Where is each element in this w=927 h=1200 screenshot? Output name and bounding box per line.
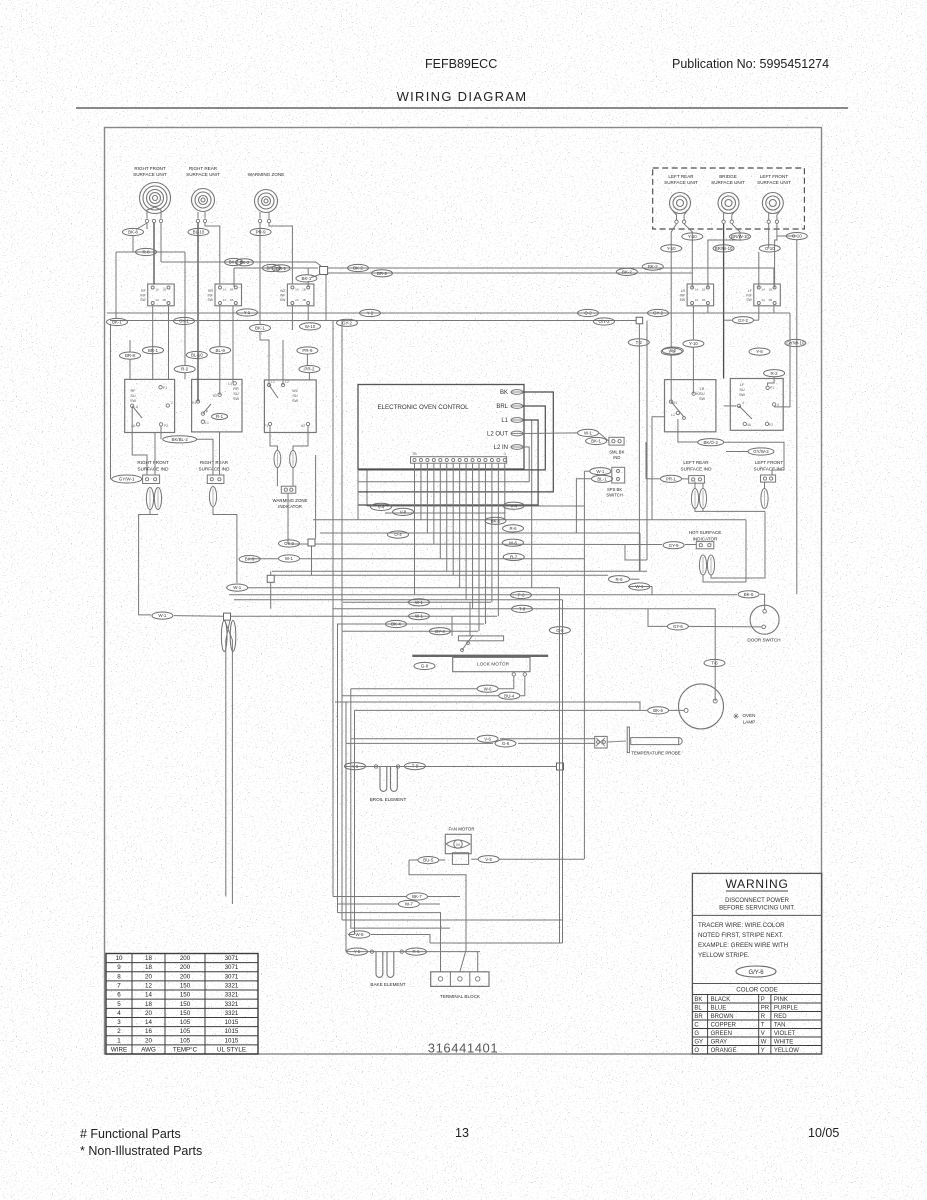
svg-text:SURFACE IND: SURFACE IND xyxy=(138,467,170,472)
svg-text:W-6: W-6 xyxy=(484,686,493,691)
svg-text:BK-7: BK-7 xyxy=(412,894,422,899)
svg-text:V: V xyxy=(761,1031,765,1037)
svg-text:BK-1: BK-1 xyxy=(302,276,312,281)
svg-text:4A: 4A xyxy=(131,424,136,428)
svg-text:8: 8 xyxy=(117,973,121,980)
svg-text:L3: L3 xyxy=(228,382,232,386)
svg-text:BR-2: BR-2 xyxy=(276,266,287,271)
svg-text:2: 2 xyxy=(117,1028,121,1035)
svg-text:SW: SW xyxy=(280,298,286,302)
svg-text:BK-9: BK-9 xyxy=(245,557,255,562)
svg-text:SW: SW xyxy=(130,399,137,403)
svg-text:FAN MOTOR: FAN MOTOR xyxy=(448,827,474,832)
svg-text:L1: L1 xyxy=(205,421,209,425)
svg-text:SURFACE UNIT: SURFACE UNIT xyxy=(664,180,698,185)
svg-text:Y-6: Y-6 xyxy=(756,349,763,354)
svg-text:316441401: 316441401 xyxy=(428,1041,498,1056)
svg-text:H2: H2 xyxy=(301,424,305,428)
svg-text:TAN: TAN xyxy=(774,1022,786,1028)
svg-text:1015: 1015 xyxy=(225,1028,239,1035)
svg-text:L1: L1 xyxy=(671,413,675,417)
svg-text:✳: ✳ xyxy=(733,712,740,721)
svg-text:105: 105 xyxy=(180,1037,191,1044)
svg-text:BR/W-10: BR/W-10 xyxy=(731,234,749,239)
svg-text:1B: 1B xyxy=(230,288,234,292)
svg-text:1015: 1015 xyxy=(225,1037,239,1044)
svg-text:1A: 1A xyxy=(155,288,159,292)
svg-text:W-6: W-6 xyxy=(509,540,518,545)
svg-text:SU: SU xyxy=(292,394,298,398)
svg-text:ORANGE: ORANGE xyxy=(711,1048,737,1054)
svg-text:O-10: O-10 xyxy=(792,234,802,239)
svg-text:WARMING ZONE: WARMING ZONE xyxy=(273,498,308,503)
svg-text:R-1: R-1 xyxy=(216,414,224,419)
svg-text:BRL: BRL xyxy=(496,404,508,410)
svg-text:RED: RED xyxy=(774,1014,787,1020)
svg-text:BL-1: BL-1 xyxy=(597,476,607,481)
svg-text:TEMPERATURE PROBE: TEMPERATURE PROBE xyxy=(631,751,681,756)
svg-text:18: 18 xyxy=(145,955,152,962)
svg-text:INDICATOR: INDICATOR xyxy=(278,504,302,509)
svg-text:GY-2: GY-2 xyxy=(653,311,663,316)
svg-text:V-5: V-5 xyxy=(485,857,492,862)
svg-text:SURFACE UNIT: SURFACE UNIT xyxy=(711,180,745,185)
svg-text:L1: L1 xyxy=(271,380,275,384)
svg-text:18: 18 xyxy=(145,964,152,971)
svg-text:14: 14 xyxy=(145,1019,152,1026)
svg-text:1: 1 xyxy=(117,1037,121,1044)
svg-text:3321: 3321 xyxy=(225,1001,239,1008)
svg-text:BK-6: BK-6 xyxy=(653,708,663,713)
svg-text:SW: SW xyxy=(292,399,299,403)
svg-text:GY-4: GY-4 xyxy=(435,629,445,634)
svg-text:SURFACE IND: SURFACE IND xyxy=(681,467,713,472)
svg-text:Y-2: Y-2 xyxy=(367,311,374,316)
svg-text:SU: SU xyxy=(739,388,745,392)
svg-text:DISCONNECT POWER: DISCONNECT POWER xyxy=(725,898,790,904)
svg-text:RF: RF xyxy=(141,289,146,293)
svg-text:EXAMPLE: GREEN WIRE WITH: EXAMPLE: GREEN WIRE WITH xyxy=(698,942,788,949)
svg-text:T-8: T-8 xyxy=(519,607,526,612)
svg-text:5: 5 xyxy=(117,1001,121,1008)
svg-text:COLOR CODE: COLOR CODE xyxy=(736,987,778,994)
svg-text:G-8: G-8 xyxy=(421,664,429,669)
svg-text:V-4: V-4 xyxy=(378,505,385,510)
svg-text:INF: INF xyxy=(208,294,213,298)
svg-text:SU: SU xyxy=(699,392,705,396)
svg-text:SW: SW xyxy=(140,298,146,302)
svg-text:200: 200 xyxy=(180,964,191,971)
svg-text:1A: 1A xyxy=(761,288,765,292)
svg-text:1B: 1B xyxy=(702,288,706,292)
svg-text:2A: 2A xyxy=(761,298,765,302)
svg-text:PR: PR xyxy=(761,1005,770,1011)
svg-text:P: P xyxy=(761,997,765,1003)
svg-text:TRACER WIRE: WIRE COLOR: TRACER WIRE: WIRE COLOR xyxy=(698,922,785,929)
svg-text:INF: INF xyxy=(680,294,685,298)
svg-text:SW: SW xyxy=(739,393,746,397)
svg-text:GY/W-10: GY/W-10 xyxy=(786,341,805,346)
svg-text:2A: 2A xyxy=(223,298,227,302)
svg-text:LAMP: LAMP xyxy=(743,720,756,725)
svg-text:H2: H2 xyxy=(696,392,700,396)
svg-text:R-2: R-2 xyxy=(771,371,779,376)
svg-text:* Non-Illustrated Parts: * Non-Illustrated Parts xyxy=(80,1144,202,1158)
svg-text:6: 6 xyxy=(117,992,121,999)
svg-text:2: 2 xyxy=(171,401,173,405)
svg-text:BK-6: BK-6 xyxy=(744,592,754,597)
svg-text:150: 150 xyxy=(180,1010,191,1017)
svg-text:BK-2: BK-2 xyxy=(622,270,632,275)
svg-text:4B: 4B xyxy=(302,298,306,302)
svg-text:H1: H1 xyxy=(192,401,196,405)
svg-text:BLACK: BLACK xyxy=(711,997,731,1003)
svg-text:SURFACE UNIT: SURFACE UNIT xyxy=(757,180,791,185)
svg-text:4: 4 xyxy=(117,1010,121,1017)
svg-text:BK: BK xyxy=(694,997,702,1003)
svg-text:10/05: 10/05 xyxy=(808,1126,839,1140)
svg-text:BK-1: BK-1 xyxy=(112,320,122,325)
svg-text:SW: SW xyxy=(233,397,240,401)
svg-text:W: W xyxy=(761,1039,767,1045)
svg-text:HOT SURFACE: HOT SURFACE xyxy=(689,530,722,535)
svg-text:V-6: V-6 xyxy=(484,736,491,741)
svg-text:BK-4: BK-4 xyxy=(391,622,401,627)
svg-text:TB: TB xyxy=(412,452,417,456)
svg-text:3071: 3071 xyxy=(225,955,239,962)
svg-text:RIGHT REAR: RIGHT REAR xyxy=(189,166,218,171)
svg-text:O: O xyxy=(694,1048,699,1054)
svg-text:SW: SW xyxy=(746,298,752,302)
svg-text:WIRE: WIRE xyxy=(111,1046,127,1053)
svg-text:L2: L2 xyxy=(285,380,289,384)
svg-text:PR-2: PR-2 xyxy=(304,367,315,372)
svg-text:LEFT REAR: LEFT REAR xyxy=(683,460,709,465)
svg-text:L2 OUT: L2 OUT xyxy=(487,432,508,438)
svg-text:ELECTRONIC OVEN CONTROL: ELECTRONIC OVEN CONTROL xyxy=(377,404,469,411)
svg-text:7: 7 xyxy=(117,982,121,989)
svg-text:BK/O-2: BK/O-2 xyxy=(703,440,718,445)
svg-text:BL-9: BL-9 xyxy=(216,348,226,353)
svg-text:WHITE: WHITE xyxy=(774,1039,793,1045)
svg-text:RR: RR xyxy=(208,289,213,293)
svg-text:TEMP°C: TEMP°C xyxy=(173,1046,198,1053)
svg-text:20: 20 xyxy=(145,973,152,980)
svg-text:GREEN: GREEN xyxy=(711,1031,732,1037)
svg-text:BK/BL-2: BK/BL-2 xyxy=(172,437,189,442)
svg-text:AWG: AWG xyxy=(141,1046,156,1053)
svg-text:PURPLE: PURPLE xyxy=(774,1005,798,1011)
svg-text:W-10: W-10 xyxy=(305,324,316,329)
svg-text:BK-1: BK-1 xyxy=(591,439,601,444)
svg-text:BU-5: BU-5 xyxy=(423,858,434,863)
svg-text:4B: 4B xyxy=(702,298,706,302)
svg-text:150: 150 xyxy=(180,992,191,999)
svg-text:1B: 1B xyxy=(768,288,772,292)
svg-text:W-1: W-1 xyxy=(415,614,424,619)
svg-text:W-1: W-1 xyxy=(596,469,605,474)
svg-text:GY-2: GY-2 xyxy=(342,320,352,325)
svg-text:BU-4: BU-4 xyxy=(504,693,515,698)
svg-text:4B: 4B xyxy=(162,298,166,302)
svg-text:NOTED FIRST, STRIPE NEXT.: NOTED FIRST, STRIPE NEXT. xyxy=(698,932,784,939)
svg-text:R-6: R-6 xyxy=(509,526,517,531)
svg-text:O-10: O-10 xyxy=(765,246,775,251)
svg-text:BEFORE SERVICING UNIT.: BEFORE SERVICING UNIT. xyxy=(719,906,795,912)
svg-text:SML BK: SML BK xyxy=(609,450,624,455)
svg-text:20: 20 xyxy=(145,1037,152,1044)
svg-text:4B: 4B xyxy=(768,298,772,302)
svg-text:150: 150 xyxy=(180,1001,191,1008)
svg-text:SWITCH: SWITCH xyxy=(606,493,623,498)
svg-text:SW: SW xyxy=(699,397,706,401)
svg-text:BR/W-10: BR/W-10 xyxy=(715,246,733,251)
svg-text:W-5: W-5 xyxy=(356,932,365,937)
svg-text:4: 4 xyxy=(742,401,744,405)
svg-text:SU: SU xyxy=(130,394,136,398)
svg-text:150: 150 xyxy=(180,982,191,989)
svg-text:BROIL ELEMENT: BROIL ELEMENT xyxy=(370,797,407,802)
svg-text:BR-1: BR-1 xyxy=(148,348,159,353)
svg-text:4B: 4B xyxy=(230,298,234,302)
svg-text:PINK: PINK xyxy=(774,997,788,1003)
svg-text:V-8: V-8 xyxy=(400,510,407,515)
svg-text:W2: W2 xyxy=(292,389,298,393)
svg-text:9: 9 xyxy=(117,964,121,971)
svg-text:Y: Y xyxy=(761,1048,765,1054)
svg-text:3071: 3071 xyxy=(225,964,239,971)
svg-text:RIGHT REAR: RIGHT REAR xyxy=(200,460,229,465)
svg-text:P1: P1 xyxy=(770,386,774,390)
svg-text:3: 3 xyxy=(117,1019,121,1026)
svg-text:RIGHT FRONT: RIGHT FRONT xyxy=(134,166,165,171)
svg-text:BR: BR xyxy=(694,1014,703,1020)
svg-text:INF: INF xyxy=(280,294,285,298)
svg-text:20: 20 xyxy=(145,1010,152,1017)
svg-text:VIOLET: VIOLET xyxy=(774,1031,796,1037)
svg-text:LEFT FRONT: LEFT FRONT xyxy=(760,174,788,179)
svg-text:2A: 2A xyxy=(295,298,299,302)
svg-text:3321: 3321 xyxy=(225,992,239,999)
svg-text:RR: RR xyxy=(233,387,239,391)
svg-text:C: C xyxy=(694,1022,699,1028)
svg-text:# Functional Parts: # Functional Parts xyxy=(80,1127,181,1141)
svg-text:LEFT REAR: LEFT REAR xyxy=(668,174,694,179)
svg-text:R-8: R-8 xyxy=(142,250,150,255)
svg-text:BK: BK xyxy=(500,390,508,396)
svg-text:BROWN: BROWN xyxy=(711,1014,734,1020)
svg-text:Y-10: Y-10 xyxy=(688,234,697,239)
svg-text:G/Y-6: G/Y-6 xyxy=(748,970,764,976)
svg-text:Y-10: Y-10 xyxy=(689,341,698,346)
svg-text:H2: H2 xyxy=(213,394,217,398)
svg-text:G-6: G-6 xyxy=(502,741,510,746)
svg-text:GY-9: GY-9 xyxy=(669,543,679,548)
svg-text:1A: 1A xyxy=(223,288,227,292)
svg-text:SURFACE IND: SURFACE IND xyxy=(754,467,786,472)
svg-text:P1: P1 xyxy=(163,386,167,390)
svg-text:RF: RF xyxy=(130,389,136,393)
svg-text:10: 10 xyxy=(116,955,123,962)
svg-text:BK-2: BK-2 xyxy=(240,260,250,265)
svg-text:1A: 1A xyxy=(295,288,299,292)
svg-text:P2: P2 xyxy=(769,423,773,427)
svg-text:BRIDGE: BRIDGE xyxy=(719,174,737,179)
svg-text:BK-5: BK-5 xyxy=(491,518,501,523)
svg-text:O-2: O-2 xyxy=(584,311,592,316)
svg-text:1B: 1B xyxy=(302,288,306,292)
svg-text:GY-2: GY-2 xyxy=(738,318,748,323)
svg-text:R-6: R-6 xyxy=(615,577,623,582)
svg-text:BR-2: BR-2 xyxy=(377,271,388,276)
svg-text:SPS BK: SPS BK xyxy=(607,487,622,492)
svg-text:SURFACE IND: SURFACE IND xyxy=(199,467,231,472)
svg-text:GY-6: GY-6 xyxy=(673,624,683,629)
svg-text:WARMING ZONE: WARMING ZONE xyxy=(248,172,285,177)
svg-text:R-2: R-2 xyxy=(181,367,189,372)
svg-text:SW: SW xyxy=(680,298,686,302)
svg-text:V-4: V-4 xyxy=(510,503,517,508)
svg-text:W-1: W-1 xyxy=(415,600,424,605)
svg-text:FEFB89ECC: FEFB89ECC xyxy=(425,57,497,71)
svg-text:INDICATOR: INDICATOR xyxy=(693,537,719,542)
svg-text:GRAY: GRAY xyxy=(711,1039,728,1045)
svg-text:BL: BL xyxy=(694,1005,702,1011)
svg-text:RIGHT FRONT: RIGHT FRONT xyxy=(137,460,168,465)
svg-text:GY: GY xyxy=(694,1039,703,1045)
svg-text:PR-9: PR-9 xyxy=(256,230,267,235)
svg-text:M: M xyxy=(456,842,459,847)
svg-text:200: 200 xyxy=(180,973,191,980)
svg-text:PR-9: PR-9 xyxy=(302,348,313,353)
svg-text:14: 14 xyxy=(145,992,152,999)
svg-text:GY/W-1: GY/W-1 xyxy=(119,477,135,482)
svg-text:UL STYLE: UL STYLE xyxy=(217,1046,246,1053)
svg-text:G: G xyxy=(694,1031,699,1037)
svg-text:W-7: W-7 xyxy=(405,902,414,907)
svg-text:BK-2: BK-2 xyxy=(648,264,658,269)
svg-text:BK-8: BK-8 xyxy=(128,230,138,235)
svg-text:L1: L1 xyxy=(501,418,508,424)
svg-text:3321: 3321 xyxy=(225,1010,239,1017)
svg-text:4A: 4A xyxy=(747,423,752,427)
svg-text:BL-10: BL-10 xyxy=(193,230,205,235)
svg-text:BLUE: BLUE xyxy=(711,1005,727,1011)
svg-text:12: 12 xyxy=(145,982,152,989)
svg-text:2A: 2A xyxy=(695,298,699,302)
svg-text:W-1: W-1 xyxy=(158,613,167,618)
svg-text:LF: LF xyxy=(740,383,745,387)
svg-text:3071: 3071 xyxy=(225,973,239,980)
svg-text:L2 IN: L2 IN xyxy=(494,445,508,451)
svg-text:SW: SW xyxy=(208,298,214,302)
svg-text:TERMINAL BLOCK: TERMINAL BLOCK xyxy=(440,994,481,999)
svg-text:105: 105 xyxy=(180,1028,191,1035)
svg-text:GY-1: GY-1 xyxy=(179,319,189,324)
svg-text:LR: LR xyxy=(700,387,705,391)
svg-text:DOOR SWITCH: DOOR SWITCH xyxy=(747,638,780,643)
svg-text:BR-8: BR-8 xyxy=(125,353,136,358)
svg-text:YELLOW: YELLOW xyxy=(774,1048,799,1054)
svg-text:13: 13 xyxy=(455,1126,469,1140)
svg-text:SURFACE UNIT: SURFACE UNIT xyxy=(186,172,220,177)
svg-text:WARNING: WARNING xyxy=(725,877,788,891)
svg-text:SURFACE UNIT: SURFACE UNIT xyxy=(133,172,167,177)
svg-text:PR-1: PR-1 xyxy=(666,476,677,481)
svg-text:OVEN: OVEN xyxy=(742,713,755,718)
svg-text:200: 200 xyxy=(180,955,191,962)
svg-text:LOCK MOTOR: LOCK MOTOR xyxy=(477,662,510,668)
svg-text:P2: P2 xyxy=(164,424,168,428)
svg-text:1: 1 xyxy=(504,452,506,456)
svg-text:1015: 1015 xyxy=(225,1019,239,1026)
svg-text:W-1: W-1 xyxy=(285,556,294,561)
svg-text:BL-10: BL-10 xyxy=(191,353,203,358)
svg-text:Publication No: 5995451274: Publication No: 5995451274 xyxy=(672,57,829,71)
svg-text:1B: 1B xyxy=(162,288,166,292)
svg-text:INF: INF xyxy=(746,294,751,298)
svg-text:LEFT FRONT: LEFT FRONT xyxy=(755,460,783,465)
svg-text:W-1: W-1 xyxy=(233,585,242,590)
svg-text:105: 105 xyxy=(180,1019,191,1026)
svg-text:BAKE ELEMENT: BAKE ELEMENT xyxy=(370,982,405,987)
svg-text:BK-2: BK-2 xyxy=(353,266,363,271)
svg-text:O-4: O-4 xyxy=(394,532,402,537)
svg-text:COPPER: COPPER xyxy=(711,1022,737,1028)
svg-text:P1: P1 xyxy=(264,424,268,428)
svg-text:LR: LR xyxy=(681,289,686,293)
svg-text:O/Y-2: O/Y-2 xyxy=(598,319,610,324)
svg-text:R: R xyxy=(761,1014,766,1020)
svg-text:1A: 1A xyxy=(695,288,699,292)
svg-text:YELLOW STRIPE.: YELLOW STRIPE. xyxy=(698,952,750,959)
svg-text:WIRING DIAGRAM: WIRING DIAGRAM xyxy=(397,89,528,104)
svg-text:INF: INF xyxy=(140,294,145,298)
svg-text:GY/W-2: GY/W-2 xyxy=(753,449,769,454)
svg-text:18: 18 xyxy=(145,1001,152,1008)
svg-text:Y-2: Y-2 xyxy=(670,348,677,353)
svg-text:WZ: WZ xyxy=(280,289,285,293)
svg-text:2A: 2A xyxy=(155,298,159,302)
svg-text:IND: IND xyxy=(613,455,620,460)
svg-text:LF: LF xyxy=(748,289,752,293)
svg-text:Y-1: Y-1 xyxy=(244,310,251,315)
svg-text:SU: SU xyxy=(233,392,239,396)
svg-text:Y-10: Y-10 xyxy=(667,246,676,251)
svg-text:3321: 3321 xyxy=(225,982,239,989)
svg-text:16: 16 xyxy=(145,1028,152,1035)
svg-text:T: T xyxy=(761,1022,765,1028)
svg-text:BK-1: BK-1 xyxy=(255,326,265,331)
svg-text:W-1: W-1 xyxy=(584,431,593,436)
svg-text:R-7: R-7 xyxy=(510,555,518,560)
